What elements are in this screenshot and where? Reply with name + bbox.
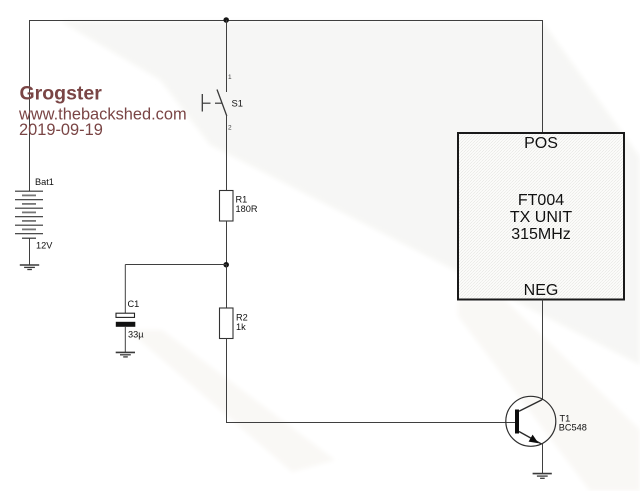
svg-text:2019-09-19: 2019-09-19 xyxy=(19,121,103,139)
wire xyxy=(542,300,544,401)
svg-text:C1: C1 xyxy=(128,299,140,309)
svg-text:R2: R2 xyxy=(236,313,248,323)
wire xyxy=(29,20,543,22)
svg-text:S1: S1 xyxy=(232,97,243,108)
svg-text:180R: 180R xyxy=(236,204,258,214)
svg-text:BC548: BC548 xyxy=(559,423,587,433)
svg-text:1: 1 xyxy=(228,74,232,81)
wire xyxy=(542,20,544,133)
box U1 FT004 TX UNIT xyxy=(458,133,624,300)
svg-text:FT004: FT004 xyxy=(518,192,564,209)
capacitor C1 xyxy=(116,299,144,340)
svg-text:315MHz: 315MHz xyxy=(511,226,571,243)
svg-text:POS: POS xyxy=(524,135,558,152)
node junction mid xyxy=(223,262,229,268)
svg-text:2: 2 xyxy=(228,125,232,132)
svg-text:33µ: 33µ xyxy=(128,330,144,340)
wire xyxy=(124,265,126,314)
wire xyxy=(125,264,226,266)
wire xyxy=(226,115,228,191)
wire xyxy=(226,339,228,424)
svg-text:1k: 1k xyxy=(236,322,246,332)
wire xyxy=(226,422,515,424)
wire xyxy=(226,265,228,309)
svg-text:R1: R1 xyxy=(236,195,248,205)
ground (T1) xyxy=(533,474,552,479)
resistor R1 xyxy=(220,191,258,222)
ground (battery) xyxy=(20,265,39,270)
switch S1 xyxy=(202,74,243,132)
svg-text:TX UNIT: TX UNIT xyxy=(510,209,572,226)
wire xyxy=(124,327,126,353)
wire xyxy=(29,238,31,265)
svg-text:12V: 12V xyxy=(36,241,53,251)
wire xyxy=(542,444,544,474)
resistor R2 xyxy=(220,308,248,339)
transistor T1 BC548 xyxy=(506,396,587,446)
svg-text:NEG: NEG xyxy=(524,282,559,299)
watermark band xyxy=(60,21,640,365)
svg-text:Bat1: Bat1 xyxy=(35,177,54,187)
wire xyxy=(226,20,228,92)
wire xyxy=(226,221,228,265)
svg-text:Grogster: Grogster xyxy=(20,83,103,105)
wire xyxy=(29,20,31,191)
battery Bat1 xyxy=(15,177,54,250)
ground (C1) xyxy=(116,352,135,357)
node junction top xyxy=(223,17,229,23)
